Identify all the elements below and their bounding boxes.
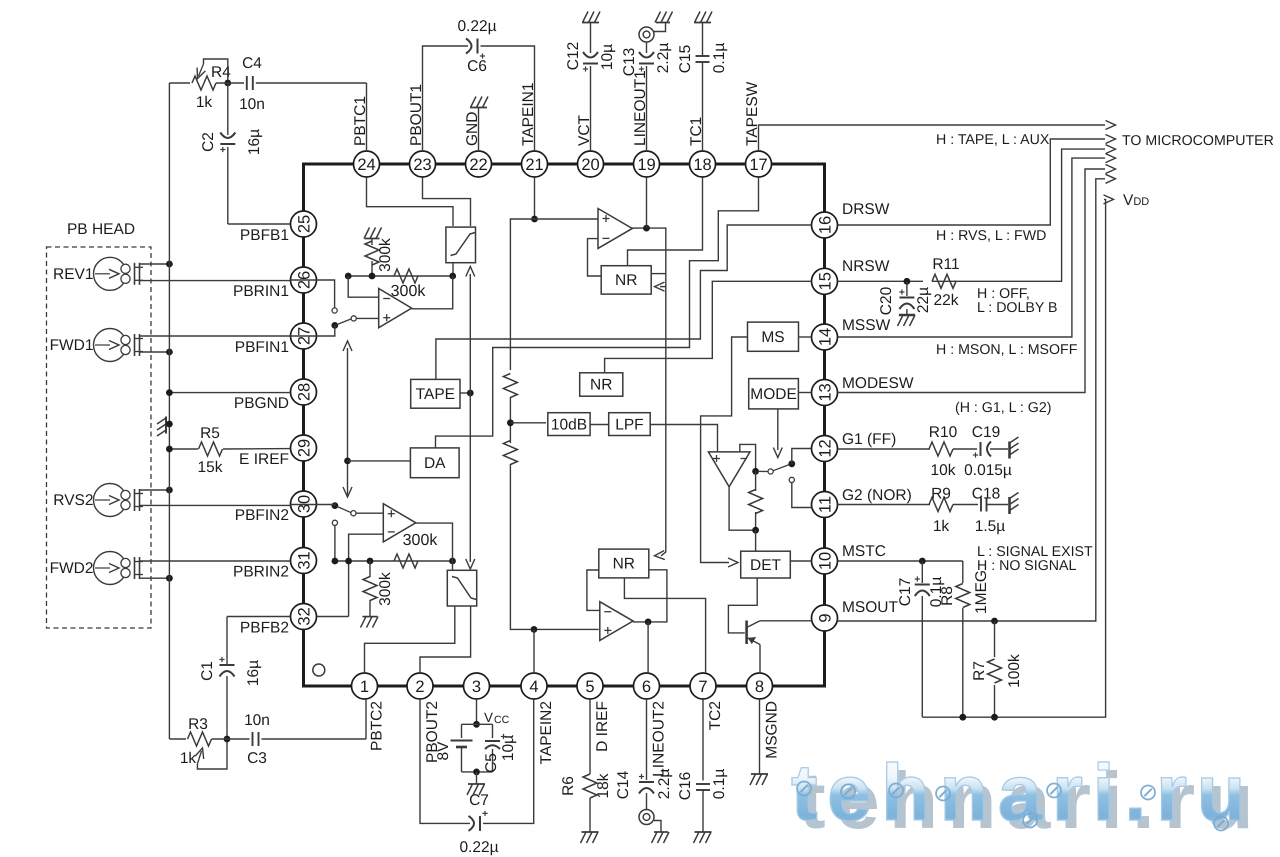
pin 15 NRSW — [812, 258, 890, 294]
pin 6 LINEOUT2 — [634, 673, 668, 777]
wire C2 to pin 25 — [228, 223, 291, 225]
wire MSSW pin14 out — [838, 154, 1116, 337]
switch G1/G2 lever — [758, 460, 796, 474]
pin 7 TC2 — [690, 673, 724, 730]
pin-1 indicator — [313, 664, 325, 676]
wire pin4 riser — [533, 629, 535, 673]
wire opampC out — [729, 487, 759, 534]
DA control arrow up — [343, 341, 352, 495]
label L SIGNAL EXIST — [977, 544, 1093, 574]
tape head REV1 — [53, 257, 143, 290]
wire TAPESW pin17 to microcomputer — [759, 121, 1116, 152]
TAPE block — [411, 379, 460, 408]
resistor 300k to ground ch2 — [361, 561, 395, 628]
wire NR3 left to opampB2 minus — [587, 570, 600, 610]
MODE block — [749, 379, 799, 409]
pin 27 PBFIN1 — [235, 323, 317, 356]
wire pin6 riser — [647, 622, 649, 673]
wire pin18 to NR1 top — [628, 177, 703, 266]
label R10 10k — [929, 424, 958, 479]
connector jack at LINEOUT2 — [639, 810, 669, 844]
wire 10dB tap — [510, 422, 546, 424]
wire TAPESW pin17 to DA — [436, 177, 759, 448]
pin 12 G1 (FF) — [812, 431, 897, 462]
wire 10dB-LPF — [590, 424, 609, 426]
wire limiter2 to pin2 — [420, 606, 471, 673]
wire to DET top — [755, 530, 757, 551]
left rail wire — [168, 83, 170, 739]
wire TAPE junction — [460, 290, 474, 496]
label H RVS L FWD — [936, 228, 1046, 244]
label VDD — [1123, 192, 1149, 209]
wire MSTC pin10 out — [838, 558, 963, 565]
switch ch1 contact a — [332, 308, 337, 313]
PB HEAD dashed box — [47, 247, 152, 628]
wire top-left horizontal — [169, 82, 190, 84]
wire opampA1 out to limiter1 — [412, 276, 453, 309]
label PB HEAD — [67, 221, 135, 238]
wire NRSW pin15 out — [838, 145, 1116, 285]
pin 32 PBFB2 — [240, 604, 317, 637]
pin 20 VCT — [576, 114, 604, 177]
limiter block 1 — [446, 227, 476, 263]
pin 30 PBFIN2 — [235, 491, 317, 524]
wire pin24 to limiter — [367, 177, 454, 226]
switch ch2 contact b — [332, 520, 337, 561]
wire pin32 to C1 — [227, 616, 291, 618]
wire NR3 bottom to pin7 — [624, 578, 705, 673]
resistor 300k feedback ch2 — [394, 532, 438, 568]
capacitor C14 2.2u — [615, 699, 673, 810]
label H MSON L MSOFF — [936, 342, 1078, 358]
resistor R7 100k — [971, 621, 1023, 717]
wire NRSW pin15 to NR2 — [605, 281, 812, 373]
ground bus to VDD — [922, 195, 1113, 721]
label C18 1.5u — [972, 486, 1006, 536]
wire opampA2 out to limiter2 — [416, 523, 453, 570]
arrow MODE to switch — [773, 409, 782, 458]
wire pin12 to switch — [792, 449, 812, 464]
capacitor C7 0.22u loop pin2-pin4 — [420, 699, 534, 856]
wire FWD1 bottom to left rail — [140, 349, 173, 356]
capacitor C6 0.22u loop pin23-pin21 — [423, 18, 535, 151]
pin 25 PBFB1 — [240, 211, 317, 244]
pin 9 MSOUT — [812, 599, 899, 631]
pin 26 PBRIN1 — [233, 267, 317, 300]
pin 10 MSTC — [812, 543, 886, 574]
resistor 300k (to ground, ch1) — [365, 238, 394, 276]
pin 8 MSGND — [747, 673, 781, 759]
tape head FWD2 — [50, 552, 143, 585]
pin 11 G2 (NOR) — [812, 487, 912, 518]
pin 2 PBOUT2 — [407, 673, 441, 763]
wire pin19 internal — [646, 177, 648, 228]
capacitor C17 0.1u — [897, 561, 945, 717]
NR block 2 — [580, 373, 623, 396]
comparator node — [752, 468, 759, 475]
pin 18 TC1 — [688, 117, 716, 177]
capacitor C16 0.1u — [677, 699, 728, 843]
wire limiter2 to pin1 — [365, 606, 455, 673]
resistor R5 15k — [166, 425, 291, 476]
wire pin30 switch — [291, 502, 357, 516]
tape head RVS2 — [53, 484, 143, 517]
DA control arrow down — [343, 458, 352, 498]
wire DRSW pin16 out — [838, 135, 1116, 226]
DA block — [410, 448, 459, 478]
pin 31 PBRIN2 — [233, 548, 317, 581]
wire opampA1 minus — [348, 276, 379, 297]
wire C4 to pin 24 — [366, 83, 368, 151]
regulator 8V and capacitor C5 at VCC pin3 — [435, 699, 517, 795]
pin 21 TAPEIN1 — [520, 83, 548, 177]
op-amp A2 (playback ch2) — [383, 504, 416, 542]
resistor internal lower — [503, 441, 517, 465]
switch ch1 lever — [331, 316, 356, 329]
MS block — [748, 322, 799, 351]
pin 14 MSSW — [812, 317, 891, 350]
wire limiter1 to feedback node — [452, 263, 454, 276]
wire REV1 top to left rail — [140, 261, 173, 268]
wire pin27 to lever — [291, 325, 335, 336]
resistor R11 22k — [932, 256, 960, 309]
wire pin21 to opampB plus rail — [531, 177, 538, 222]
wire between internal resistors — [507, 397, 514, 443]
wire opampC minus feedback — [740, 444, 756, 471]
wire lever to opampA1 plus — [357, 317, 379, 319]
resistor internal upper — [503, 362, 517, 398]
wire REV1 bottom to pin 26 — [140, 280, 291, 282]
block LPF — [609, 413, 651, 436]
capacitor C12 10u at VCT — [565, 12, 616, 152]
label H OFF L DOLBY B — [977, 286, 1057, 316]
arrow into NR1 — [655, 282, 666, 291]
wire MODESW pin13 out — [838, 165, 1116, 393]
wire MS to pin14 — [799, 336, 812, 338]
limiter block 2 — [447, 570, 476, 606]
label H TAPE L AUX — [936, 132, 1050, 148]
ground above 300k resistor — [364, 228, 382, 239]
feedback bus ch2 — [332, 558, 456, 565]
resistor R4 1k (trimmer) — [192, 59, 231, 111]
ground at pin 22 — [470, 97, 488, 152]
wire opampB minus — [588, 239, 602, 276]
op-amp C (level detector) — [708, 452, 750, 487]
ground on left rail — [157, 417, 173, 437]
op-amp IC body (32-pin) — [304, 164, 825, 686]
resistor 300k feedback ch1 — [391, 269, 427, 300]
wire RVS2 top to left rail — [140, 487, 173, 494]
arrow TAPE line into limiter1 — [466, 267, 475, 291]
wire DA to control line — [348, 460, 411, 462]
pin 4 TAPEIN2 — [521, 673, 555, 764]
feedback bus ch1 — [345, 273, 456, 280]
wire FWD2 bottom to left rail — [140, 575, 173, 582]
label R9 1k — [931, 486, 951, 536]
wire RVS2 bottom to pin 30 — [140, 504, 291, 506]
pin 3 VCC — [464, 673, 490, 699]
wire pin23 to limiter — [423, 177, 471, 226]
capacitor C4 10n — [216, 55, 367, 113]
wire DRSW pin16 to TAPE — [436, 225, 812, 379]
pin 24 PBTC1 — [352, 96, 380, 177]
op-amp A1 (playback ch1) — [379, 289, 412, 328]
op-amp B (record eq) — [598, 209, 632, 249]
wire G1 pin12 with R10 C19 — [838, 437, 1019, 459]
wire MSOUT pin9 out — [838, 174, 1116, 624]
pin 19 LINEOUT1 — [632, 70, 660, 177]
ground at MSGND pin8 — [750, 699, 768, 785]
resistor R3 1k (trimmer) — [169, 716, 230, 769]
connector jack at LINEOUT1 — [639, 12, 673, 43]
capacitor C20 22u — [878, 281, 932, 326]
arrow TAPE line into limiter2 — [466, 496, 475, 569]
capacitor C3 10n — [212, 712, 367, 767]
DET block — [741, 551, 791, 578]
pin 22 GND — [464, 112, 492, 177]
wire pin26 to contact a — [291, 280, 335, 308]
wire opampB plus rail — [510, 219, 598, 370]
wire opampA2 minus — [349, 534, 384, 616]
pin 1 PBTC2 — [352, 673, 386, 751]
wire C3 to pin 1 — [365, 699, 367, 739]
pin 23 PBOUT1 — [408, 84, 436, 177]
wire MODE to pin13 — [798, 392, 811, 394]
capacitor C1 16u — [199, 617, 262, 740]
wire MS to DET — [701, 337, 748, 567]
wire NR1 right to output line — [651, 273, 666, 275]
NR block 1 — [601, 266, 651, 294]
wire to opampC plus input — [510, 464, 598, 633]
wire DET bottom to transistor base — [728, 578, 757, 633]
pin 29 E IREF — [239, 435, 316, 468]
label C19 0.015u — [964, 424, 1012, 479]
tape head FWD1 — [50, 329, 143, 362]
resistor R6 18k — [560, 699, 612, 843]
wire lever to opampA2 plus — [356, 512, 383, 514]
NR block 3 — [599, 549, 649, 578]
wire pin32 internal — [317, 616, 349, 618]
capacitor C2 16u — [200, 83, 263, 224]
pin 17 TAPESW — [744, 81, 772, 177]
wire collector to pin9 — [760, 620, 812, 622]
pin 5 D IREF — [577, 673, 611, 752]
resistor comparator — [749, 471, 763, 530]
transistor Q1 — [747, 621, 760, 645]
pin 16 DRSW — [812, 201, 890, 238]
wire opampB out — [632, 225, 666, 561]
wire DET to pin10 — [790, 560, 811, 562]
wire G2 pin11 with R9 C18 — [838, 493, 1019, 515]
capacitor C13 2.2u at LINEOUT1 — [621, 42, 672, 151]
capacitor C15 0.1u at TC1 — [677, 12, 728, 152]
pin 13 MODESW — [812, 375, 914, 406]
wire LPF to opampC — [650, 425, 717, 452]
switch G2 contact — [789, 477, 811, 507]
wire FWD1 top to pin 27 — [140, 335, 291, 337]
wire FWD2 top to pin 31 — [140, 560, 291, 562]
label TO MICROCOMPUTER — [1122, 133, 1274, 149]
block 10dB — [548, 413, 590, 436]
pin 28 PBGND — [234, 379, 317, 412]
label H G1 L G2 — [955, 400, 1051, 416]
wire emitter to pin8 — [759, 645, 761, 674]
op-amp B2 (line out ch2) — [600, 602, 633, 641]
watermark tehnari.ru — [791, 747, 1280, 857]
resistor R8 1MEG — [939, 561, 990, 717]
wire opampB2 out — [633, 570, 667, 626]
wire PBGND pin 28 to left rail — [166, 389, 291, 396]
